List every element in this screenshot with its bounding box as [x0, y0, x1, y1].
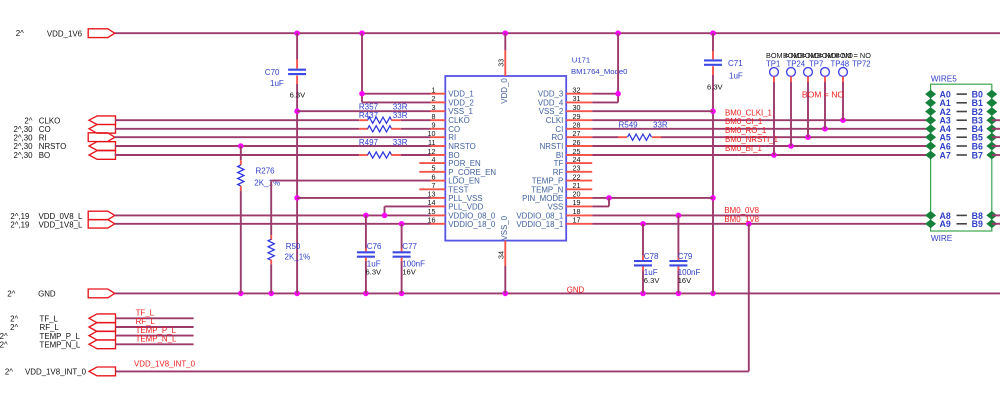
- wire net VDD_1V6 rail: [115, 30, 1000, 36]
- wire exit B3: [992, 119, 1000, 121]
- svg-text:LDO_EN: LDO_EN: [448, 177, 480, 186]
- svg-text:R437: R437: [359, 111, 379, 120]
- connector WIRE5 body: [931, 75, 992, 244]
- wire net TEMP_N_L: [116, 343, 194, 345]
- svg-text:2^: 2^: [10, 315, 18, 324]
- svg-text:C76: C76: [367, 242, 382, 251]
- IC U171 left pin 6 LDO_EN: [431, 172, 481, 185]
- net label GND: [567, 285, 585, 294]
- net label VDD_1V8_INT_0: [134, 360, 196, 369]
- wire net NRSTO: [115, 143, 431, 149]
- IC U171 right pin 26 NRSTI: [540, 138, 593, 151]
- net label BM0_0V8: [724, 206, 759, 215]
- IC U171 left pin 16 VDDIO_18_0: [428, 216, 496, 229]
- IC U171 left pin 7 TEST: [419, 181, 468, 194]
- IC U171 right pin 29 CLKI: [546, 112, 592, 125]
- port connector CO: [13, 125, 115, 135]
- IC U171 right pin 28 CI: [555, 121, 592, 134]
- svg-text:1uF: 1uF: [729, 71, 743, 80]
- svg-text:VSS_0: VSS_0: [500, 215, 509, 240]
- svg-text:R276: R276: [256, 167, 276, 176]
- svg-text:C78: C78: [644, 252, 659, 261]
- svg-text:4: 4: [432, 155, 436, 164]
- resistor R497 33R in BO line: [115, 138, 431, 158]
- svg-text:B7: B7: [972, 150, 983, 160]
- svg-text:34: 34: [497, 251, 506, 259]
- net label BM0_CI_1: [725, 117, 762, 126]
- svg-text:6.3V: 6.3V: [707, 83, 724, 92]
- port connector CLKO: [24, 116, 115, 126]
- svg-text:VDD_1V6: VDD_1V6: [47, 29, 83, 38]
- port connector NRSTO: [13, 142, 115, 152]
- WIRE5 pin A0: [925, 90, 951, 100]
- svg-text:2^,19: 2^,19: [10, 220, 30, 229]
- svg-text:A7: A7: [940, 150, 951, 160]
- svg-text:B9: B9: [972, 219, 983, 229]
- net label BM0_RO_1: [725, 126, 766, 135]
- svg-text:VDDIO_18_1: VDDIO_18_1: [516, 220, 563, 229]
- wire net RF_L: [116, 326, 194, 328]
- wire PLL_VDD pin14 jog to VDD_0V8_L: [385, 206, 431, 215]
- IC U171 right pin 22 TEMP_P: [532, 172, 592, 185]
- svg-text:2^: 2^: [0, 341, 8, 350]
- wire exit B8: [992, 214, 1000, 216]
- svg-text:16V: 16V: [402, 268, 416, 277]
- port connector VDD_1V6: [16, 29, 115, 39]
- net label BM0_1V8: [724, 215, 759, 224]
- IC U171 right pin 21 TEMP_N: [531, 181, 592, 194]
- resistor R276 2K_1% NRSTO to GND: [238, 146, 280, 293]
- svg-text:WIRE5: WIRE5: [931, 75, 957, 84]
- svg-text:NRSTO: NRSTO: [448, 142, 475, 151]
- svg-text:GND: GND: [38, 289, 56, 298]
- svg-text:6.3V: 6.3V: [644, 276, 661, 285]
- svg-text:3: 3: [432, 103, 436, 112]
- IC U171 BM1764_Mode0 body: [445, 55, 627, 240]
- port connector RF_L: [10, 323, 115, 333]
- WIRE5 pin B9: [957, 219, 998, 229]
- svg-text:BM0_RO_1: BM0_RO_1: [725, 126, 766, 135]
- svg-text:6.3V: 6.3V: [366, 268, 383, 277]
- test point TP72: [835, 51, 871, 120]
- wire net TF_L: [116, 317, 194, 319]
- svg-text:27: 27: [573, 129, 581, 138]
- IC U171 left pin 13 PLL_VSS: [428, 190, 483, 203]
- net label TEMP_P_L: [136, 326, 177, 335]
- svg-text:TP7: TP7: [809, 60, 823, 69]
- svg-text:23: 23: [573, 164, 581, 173]
- svg-text:VDD_1V8_INT_0: VDD_1V8_INT_0: [25, 368, 87, 377]
- net label BM0_BI_1: [725, 144, 762, 153]
- capacitor C71: [704, 33, 743, 293]
- IC U171 left pin 5 P_CORE_EN: [419, 164, 496, 177]
- IC U171 left pin 4 POR_EN: [419, 155, 481, 168]
- svg-text:R497: R497: [359, 138, 379, 147]
- svg-text:30: 30: [573, 103, 581, 112]
- svg-text:32: 32: [573, 86, 581, 95]
- capacitor C70: [265, 33, 306, 293]
- svg-text:2^: 2^: [7, 289, 15, 298]
- svg-text:17: 17: [573, 216, 581, 225]
- svg-text:19: 19: [573, 198, 581, 207]
- IC U171 right pin 18 VDDIO_08_1: [516, 207, 592, 220]
- wire net VDD_1V8_L: [115, 221, 431, 227]
- svg-text:16V: 16V: [678, 276, 692, 285]
- svg-text:C77: C77: [402, 242, 417, 251]
- svg-text:TP72: TP72: [852, 60, 871, 69]
- svg-text:TP48: TP48: [831, 60, 850, 69]
- svg-text:P_CORE_EN: P_CORE_EN: [448, 168, 496, 177]
- IC U171 left pin 14 PLL_VDD: [428, 198, 484, 211]
- port connector VDD_1V8_L: [10, 220, 114, 230]
- svg-text:VSS_1: VSS_1: [448, 107, 473, 116]
- port connector VDD_1V8_INT_0: [5, 367, 116, 377]
- port connector TF_L: [10, 314, 115, 324]
- WIRE5 pin B7: [957, 150, 998, 160]
- wire net RI: [115, 136, 431, 138]
- svg-text:6: 6: [432, 172, 436, 181]
- svg-text:VDD_1V8_INT_0: VDD_1V8_INT_0: [134, 360, 196, 369]
- svg-text:BO: BO: [39, 151, 50, 160]
- wire exit B6: [992, 145, 1000, 147]
- resistor R357 33R in CLKO line: [115, 102, 431, 123]
- IC U171 right pin 20 PIN_MODE: [522, 190, 592, 203]
- wire net VDD_0V8_L: [115, 213, 431, 219]
- svg-text:BOM = NO: BOM = NO: [802, 89, 845, 99]
- port connector RI: [13, 133, 114, 143]
- svg-text:VDDIO_18_0: VDDIO_18_0: [448, 220, 496, 229]
- svg-text:RF: RF: [553, 168, 564, 177]
- svg-text:TEMP_P: TEMP_P: [532, 177, 564, 186]
- wire exit B9: [992, 223, 1000, 225]
- label BOM = NO red: [802, 89, 845, 99]
- wire VDD_1V6 to pins 32 31: [592, 33, 621, 102]
- svg-text:5: 5: [432, 164, 436, 173]
- wire net VDD_1V8_INT_0: [116, 224, 749, 372]
- svg-text:2^,30: 2^,30: [13, 133, 33, 142]
- svg-text:26: 26: [573, 138, 581, 147]
- WIRE5 pin A6: [925, 141, 951, 151]
- port connector GND: [7, 289, 114, 298]
- wire net BM0_BI_1: [592, 152, 930, 158]
- IC U171 left pin 15 VDDIO_08_0: [428, 207, 496, 220]
- wire net TEMP_P_L: [116, 335, 194, 337]
- IC U171 right pin 17 VDDIO_18_1: [516, 216, 592, 229]
- IC U171 left pin 12 BO: [428, 147, 460, 160]
- svg-text:2^,30: 2^,30: [13, 142, 33, 151]
- svg-text:TEMP_N_L: TEMP_N_L: [136, 335, 177, 344]
- svg-text:1: 1: [432, 86, 436, 95]
- svg-text:RO: RO: [551, 133, 563, 142]
- wire net BM0_NRSTI_1: [592, 143, 930, 149]
- svg-text:PLL_VDD: PLL_VDD: [448, 202, 483, 211]
- wire net GND: [115, 291, 1000, 297]
- net label TEMP_N_L: [136, 335, 177, 344]
- WIRE5 pin A4: [925, 124, 951, 134]
- test point TP24: [783, 51, 819, 146]
- svg-text:33: 33: [497, 59, 506, 67]
- WIRE5 pin A7: [925, 150, 951, 160]
- svg-text:6.3V: 6.3V: [290, 91, 307, 100]
- IC U171 right pin 25 BI: [556, 147, 592, 160]
- svg-text:R549: R549: [619, 120, 639, 129]
- svg-text:BM0_1V8: BM0_1V8: [724, 215, 759, 224]
- IC U171 left pin 11 NRSTO: [428, 138, 476, 151]
- svg-text:U171: U171: [572, 55, 590, 64]
- IC U171 left pin 8 CLKO: [431, 112, 470, 125]
- wire net BM0_0V8: [592, 213, 930, 219]
- svg-text:TF_L: TF_L: [136, 309, 155, 318]
- wire PIN_MODE pin20 to GND vertical: [592, 195, 713, 201]
- IC U171 left pin 3 VSS_1: [431, 103, 473, 116]
- WIRE5 pin A9: [925, 219, 951, 229]
- wire LDO_EN pin6 to R50: [271, 180, 430, 182]
- svg-text:POR_EN: POR_EN: [448, 159, 481, 168]
- port connector VDD_0V8_L: [10, 211, 114, 221]
- IC U171 bottom pin 34 VSS_0: [497, 241, 506, 294]
- WIRE5 pin B8: [957, 211, 998, 221]
- svg-text:1uF: 1uF: [270, 79, 284, 88]
- svg-text:BOM = NO: BOM = NO: [835, 51, 871, 60]
- svg-text:TP24: TP24: [787, 60, 806, 69]
- WIRE5 pin B6: [957, 141, 998, 151]
- WIRE5 pin B5: [957, 133, 998, 143]
- svg-text:VDD_2: VDD_2: [448, 98, 473, 107]
- svg-text:2^: 2^: [10, 323, 18, 332]
- capacitor C76 1uF 6.3V: [357, 215, 382, 293]
- svg-text:C71: C71: [728, 59, 743, 68]
- resistor R437 33R in CO line: [115, 111, 431, 132]
- IC U171 left pin 10 RI: [428, 129, 457, 142]
- IC U171 right pin 23 RF: [553, 164, 592, 177]
- WIRE5 pin B2: [957, 107, 998, 117]
- WIRE5 pin A5: [925, 133, 951, 143]
- svg-text:BM0_0V8: BM0_0V8: [724, 206, 759, 215]
- net label BM0_NRSTI_1: [725, 135, 778, 144]
- svg-text:TEMP_P_L: TEMP_P_L: [136, 326, 177, 335]
- IC U171 top pin 33 VDD_0: [497, 33, 506, 76]
- svg-text:R357: R357: [359, 102, 379, 111]
- wire exit B7: [992, 154, 1000, 156]
- IC U171 right pin 31 VDD_4: [538, 94, 592, 107]
- WIRE5 pin B1: [957, 98, 998, 108]
- WIRE5 pin A1: [925, 98, 951, 108]
- svg-text:VDD_1: VDD_1: [448, 90, 473, 99]
- net label RF_L: [136, 317, 156, 326]
- wire VSS_1 pin3 to C70: [297, 110, 430, 112]
- svg-text:33R: 33R: [653, 120, 668, 129]
- svg-text:2^: 2^: [0, 332, 8, 341]
- WIRE5 pin B4: [957, 124, 998, 134]
- resistor R50 2K_1% LDO_EN to GND: [268, 181, 310, 294]
- svg-text:NRSTI: NRSTI: [540, 142, 564, 151]
- svg-text:NRSTO: NRSTO: [39, 142, 66, 151]
- svg-text:VSS_2: VSS_2: [539, 107, 564, 116]
- capacitor C77 100nF 16V: [393, 224, 425, 294]
- WIRE5 pin B0: [957, 90, 998, 100]
- IC U171 right pin 27 RO: [551, 129, 592, 142]
- IC U171 left pin 9 CO: [431, 121, 461, 134]
- wire exit B5: [992, 136, 1000, 138]
- port connector BO: [13, 151, 115, 161]
- resistor R549 33R in RO line: [592, 120, 930, 140]
- test point TP48: [817, 51, 853, 129]
- test point TP7: [800, 51, 836, 137]
- svg-text:C70: C70: [265, 68, 280, 77]
- wire net BM0_CLKI_1: [592, 117, 930, 123]
- IC U171 right pin 24 TF: [554, 155, 593, 168]
- svg-text:TF: TF: [554, 159, 564, 168]
- svg-text:2: 2: [432, 94, 436, 103]
- svg-text:TF_L: TF_L: [40, 315, 59, 324]
- svg-text:RI: RI: [39, 133, 47, 142]
- WIRE5 pin A2: [925, 107, 951, 117]
- svg-text:TEMP_N_L: TEMP_N_L: [40, 341, 81, 350]
- svg-text:33R: 33R: [393, 102, 408, 111]
- svg-text:2^: 2^: [16, 29, 24, 38]
- svg-text:VSS: VSS: [548, 202, 564, 211]
- svg-text:2K_1%: 2K_1%: [285, 253, 311, 262]
- net label BM0_CLKI_1: [725, 108, 772, 117]
- test point TP1: [766, 51, 802, 155]
- wire net BM0_1V8: [592, 221, 930, 227]
- WIRE5 pin A3: [925, 116, 951, 126]
- capacitor C78 1uF 6.3V: [634, 224, 660, 294]
- svg-text:BM0_CI_1: BM0_CI_1: [725, 117, 762, 126]
- svg-text:VDD_4: VDD_4: [538, 98, 564, 107]
- svg-text:31: 31: [573, 94, 581, 103]
- svg-text:C79: C79: [678, 252, 693, 261]
- wire exit B4: [992, 128, 1000, 130]
- svg-text:TEMP_P_L: TEMP_P_L: [40, 332, 81, 341]
- port connector TEMP_P_L: [0, 331, 116, 341]
- svg-text:WIRE: WIRE: [931, 234, 953, 243]
- svg-text:2^: 2^: [5, 368, 13, 377]
- svg-text:A9: A9: [940, 219, 951, 229]
- svg-text:R50: R50: [286, 242, 301, 251]
- svg-text:22: 22: [573, 172, 581, 181]
- svg-text:VDD_0: VDD_0: [500, 78, 509, 104]
- svg-text:2^,30: 2^,30: [13, 151, 33, 160]
- wire VDD_1V6 to pins 1 2: [359, 33, 430, 102]
- wire VSS pin19 jog: [592, 198, 609, 207]
- wire PLL_VSS pin13 to C70 vertical: [297, 197, 430, 199]
- IC U171 right pin 32 VDD_3: [538, 86, 592, 99]
- WIRE5 pin B3: [957, 116, 998, 126]
- svg-text:BM0_NRSTI_1: BM0_NRSTI_1: [725, 135, 778, 144]
- IC U171 right pin 30 VSS_2: [539, 103, 592, 116]
- IC U171 left pin 1 VDD_1: [431, 86, 474, 99]
- svg-text:33R: 33R: [393, 111, 408, 120]
- wire VSS_2 pin30 to C71: [592, 110, 713, 112]
- port connector TEMP_N_L: [0, 340, 116, 350]
- wire net BM0_CI_1: [592, 126, 930, 132]
- svg-text:TP1: TP1: [766, 60, 780, 69]
- WIRE5 pin A8: [925, 211, 951, 221]
- capacitor C79 100nF 16V: [669, 215, 700, 293]
- svg-text:VDD_3: VDD_3: [538, 90, 564, 99]
- IC U171 right pin 19 VSS: [548, 198, 593, 211]
- svg-text:GND: GND: [567, 285, 585, 294]
- svg-text:BM0_CLKI_1: BM0_CLKI_1: [725, 108, 772, 117]
- svg-text:BM0_BI_1: BM0_BI_1: [725, 144, 762, 153]
- svg-text:RI: RI: [448, 133, 456, 142]
- svg-text:24: 24: [573, 155, 581, 164]
- IC U171 left pin 2 VDD_2: [431, 94, 474, 107]
- svg-text:VDD_1V8_L: VDD_1V8_L: [39, 220, 83, 229]
- net label TF_L: [136, 309, 155, 318]
- svg-text:33R: 33R: [393, 138, 408, 147]
